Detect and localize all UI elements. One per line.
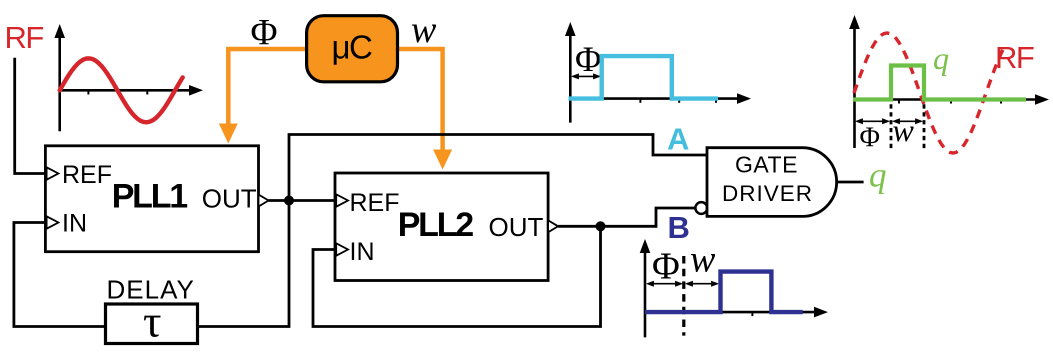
svg-text:PLL1: PLL1 bbox=[112, 178, 188, 216]
B waveform scope: axes bbox=[640, 239, 828, 337]
svg-text:τ: τ bbox=[143, 296, 162, 347]
PLL2 IN input pin bbox=[336, 243, 348, 255]
PLL2 block bbox=[335, 173, 548, 281]
svg-text:w: w bbox=[893, 112, 915, 148]
wire: PLL1 OUT to PLL2 REF bbox=[269, 199, 336, 202]
output scope: axes bbox=[849, 15, 1049, 148]
output scope: RF dashed sine bbox=[854, 33, 1004, 153]
svg-text:REF: REF bbox=[62, 161, 112, 189]
gate driver inverting bubble on B input bbox=[695, 202, 707, 214]
microcontroller uC block bbox=[307, 16, 398, 82]
wire: PLL2 OUT to gate driver B input bbox=[558, 208, 694, 226]
svg-text:Φ: Φ bbox=[860, 123, 880, 154]
wire: junction up to gate driver A input bbox=[289, 135, 707, 201]
B waveform: PHI dimension arrow bbox=[646, 281, 719, 287]
node: PLL2 OUT junction bbox=[596, 221, 606, 231]
RF sine waveform bbox=[60, 58, 183, 122]
output scope: dashed marker at pulse end bbox=[923, 104, 926, 148]
svg-text:Φ: Φ bbox=[652, 246, 680, 288]
B waveform: dashed marker bbox=[682, 256, 685, 336]
RF scope: axis ticks bbox=[87, 90, 89, 94]
PLL1 REF input pin bbox=[47, 167, 59, 179]
svg-text:REF: REF bbox=[350, 189, 400, 217]
wire: PLL2 feedback to IN bbox=[313, 226, 601, 326]
output scope: q waveform (green pulse) bbox=[853, 66, 1026, 100]
wire: junction down to DELAY bbox=[198, 201, 290, 327]
svg-text:w: w bbox=[690, 239, 716, 281]
wire: DELAY to PLL1 IN bbox=[14, 223, 106, 327]
A waveform scope: axes bbox=[565, 22, 751, 123]
GATE DRIVER block (AND gate shape) bbox=[707, 148, 837, 217]
orange wire: uC w output to PLL2 bbox=[397, 49, 443, 152]
svg-text:A: A bbox=[667, 122, 689, 157]
svg-text:GATE: GATE bbox=[735, 152, 798, 178]
svg-text:B: B bbox=[668, 210, 690, 245]
svg-text:q: q bbox=[869, 156, 887, 195]
A waveform PHI dimension arrow bbox=[571, 73, 601, 79]
PLL1 IN input pin bbox=[47, 216, 59, 228]
B waveform (navy pulse) bbox=[645, 272, 803, 313]
A waveform (cyan pulse) bbox=[569, 56, 719, 99]
PLL2 OUT output pin bbox=[548, 220, 558, 232]
svg-text:OUT: OUT bbox=[202, 184, 257, 214]
svg-text:q: q bbox=[933, 40, 949, 76]
svg-text:Φ: Φ bbox=[575, 39, 601, 79]
RF scope: vertical axis bbox=[54, 24, 203, 131]
PLL1 block bbox=[45, 146, 258, 252]
B waveform: w dimension arrow bbox=[687, 283, 717, 285]
output scope: PHI dimension arrow bbox=[855, 118, 923, 124]
svg-text:IN: IN bbox=[350, 238, 375, 266]
orange arrowhead into PLL1 bbox=[219, 124, 238, 144]
orange arrowhead into PLL2 bbox=[433, 150, 452, 170]
PLL1 OUT output pin bbox=[259, 195, 269, 207]
svg-text:RF: RF bbox=[5, 20, 44, 55]
orange wire: uC PHI output to PLL1 bbox=[228, 49, 307, 126]
svg-text:IN: IN bbox=[62, 210, 87, 238]
wire: gate driver output q bbox=[837, 181, 864, 184]
wire: RF source to PLL1 REF bbox=[15, 58, 44, 174]
PLL2 REF input pin bbox=[336, 194, 348, 206]
svg-text:μC: μC bbox=[332, 29, 373, 66]
svg-text:w: w bbox=[411, 9, 437, 51]
output scope: dashed marker at pulse start bbox=[890, 104, 893, 148]
RF scope: horizontal axis bbox=[60, 89, 194, 92]
node: PLL1 OUT junction bbox=[284, 196, 294, 206]
svg-text:OUT: OUT bbox=[489, 212, 544, 242]
svg-text:DRIVER: DRIVER bbox=[722, 181, 813, 206]
svg-text:RF: RF bbox=[995, 40, 1034, 75]
output scope: w dimension arrow bbox=[894, 120, 921, 122]
svg-text:PLL2: PLL2 bbox=[398, 206, 474, 244]
